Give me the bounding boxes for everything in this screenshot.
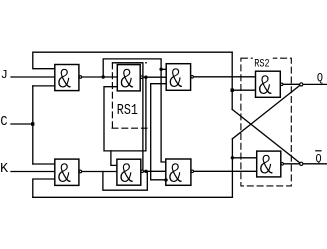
junction dot G1 output branch [102,75,105,78]
wire G3 top input [161,68,166,70]
terminal circle Q-bar [300,162,303,165]
svg-text:K: K [0,162,9,177]
bubble RS1 bottom output [141,170,144,173]
RS1 dashed box [112,63,148,128]
svg-text:&: & [120,63,134,96]
wire Q output [283,83,327,85]
wire Q-bar output [284,163,327,165]
bubble G2 output [79,170,82,173]
svg-text:J: J [1,68,8,82]
wire RS2 top gate bottom input [232,89,255,91]
gate G5 box [256,71,281,97]
svg-text:RS2: RS2 [254,57,270,69]
svg-text:&: & [169,63,183,96]
wire G3 output to RS2 top gate [194,76,256,78]
gate RS1 bottom box [117,159,141,185]
wire C vertical [32,86,34,164]
wire right vertical from top feedback [231,52,233,109]
wire RS2 bottom gate top input [232,157,256,159]
wire vertical beside RS1 gates [113,63,143,172]
bubble G4 output [191,170,194,173]
junction square RS2 top gate input [231,89,234,92]
junction dot RS1 bottom output [144,170,147,173]
label RS2 (on dashed edge, white backing) [253,57,273,68]
svg-text:&: & [58,63,72,96]
bubble G1 output [79,76,82,79]
ampersand glyphs of the six visible gates [58,63,274,191]
wire G1 output to RS1 top gate [82,76,118,78]
svg-text:Q: Q [316,153,322,166]
gate G4 box [166,159,191,185]
wire J input [11,76,55,78]
svg-text:&: & [58,158,72,191]
wire branch up from G1 output to bus [103,59,166,162]
wire bottom feedback from Q to G2 [33,196,232,198]
wire RS1 cross-coupling jog to bottom gate top input [111,151,117,166]
svg-text:Q: Q [317,72,323,85]
junction dot G3 top input [159,68,162,71]
wire diagonal to Q-bar node [232,109,300,163]
wire top feedback from Q-bar to G1 top input [33,52,232,68]
gate G2 box [55,159,79,185]
terminal circle Q [300,83,303,86]
svg-text:&: & [258,70,272,103]
svg-text:C: C [0,113,7,129]
junction dot G4 bottom input [164,178,167,181]
svg-text:&: & [120,158,134,191]
bubble RS1 top output [140,76,143,79]
wire C input [11,123,33,125]
wire G3 bottom input bus [151,84,167,180]
wire G2 output to RS1 bottom gate [82,171,117,173]
svg-text:&: & [169,158,183,191]
wire diagonal to Q node [232,85,300,139]
bubble G6 output [281,163,284,166]
bubble G3 output [191,76,194,79]
wire right vertical from bottom feedback [231,139,233,198]
gate G6 box [257,151,281,177]
wire RS1 top output to G3 [143,76,166,78]
junction square C input [31,122,34,125]
wire K input [11,171,55,173]
wire loop under RS1 bottom gate [103,171,147,190]
overbar of Q-bar [315,150,321,152]
gate G3 box [166,64,190,91]
gate RS1 top box [117,65,140,91]
junction dot RS1 top output [144,76,147,79]
RS2 dashed box [241,58,291,186]
wire RS1 bottom output to G4 [144,170,166,172]
wire G1 bottom input from C line [33,85,55,87]
wire RS1 top gate lower input [104,77,146,151]
svg-text:&: & [259,149,273,182]
wire G2 bottom input [33,179,55,197]
wire G4 output to RS2 bottom gate [194,170,257,172]
junction dot RS2 bottom gate input [231,156,234,159]
gate G1 box [55,65,79,91]
wire G2 top input [33,163,55,165]
svg-text:RS1: RS1 [117,103,138,120]
bubble G5 output [280,83,283,86]
